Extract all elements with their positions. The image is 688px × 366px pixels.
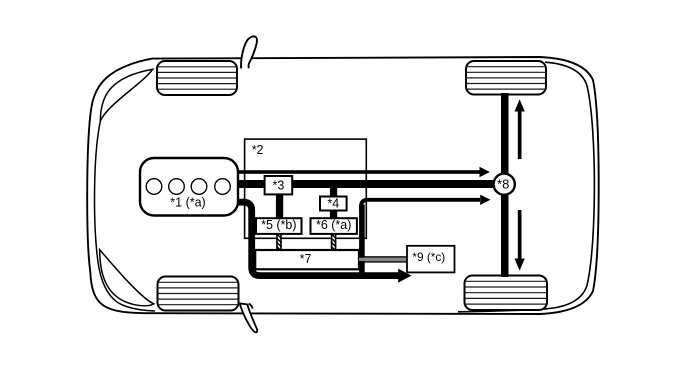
cylinder 2 [169,179,185,195]
wire line #1 engine to *8 (arrow) [237,170,480,174]
box *5 [256,218,302,234]
arrowhead path A [398,269,411,283]
car front lower crescent [100,250,154,306]
wheel front-top [157,61,237,95]
box *4 [320,197,347,211]
svg-text:*1 (*a): *1 (*a) [170,195,205,209]
rear axle [501,93,509,277]
arrowhead branch B [480,195,490,205]
box *7 [255,250,359,269]
engine *1 [140,158,238,216]
svg-text:*9 (*c): *9 (*c) [412,250,445,264]
box *6 [311,218,357,234]
wire line #2 engine to *8 [237,180,495,188]
vertical connector *3 to *5 [276,194,283,220]
car front upper crescent [100,69,153,121]
cylinder 4 [215,179,231,195]
mirror bottom hook [249,304,253,309]
svg-text:*7: *7 [300,252,312,266]
svg-text:*4: *4 [327,197,339,211]
hatched connector below *6 [331,234,337,252]
cylinder 1 [146,179,162,195]
svg-text:*5 (*b): *5 (*b) [261,218,296,232]
svg-text:*2: *2 [252,143,264,157]
gray bus *7 to *9 [359,256,408,262]
svg-text:*6 (*a): *6 (*a) [316,218,351,232]
wheel rear-top [466,61,546,95]
mirror bottom [240,303,258,332]
node *8 circle [494,174,515,195]
wire thick path A: engine down around *7 to arrow [237,202,399,275]
wheel rear-bottom [465,276,548,311]
cylinder 3 [191,179,207,195]
box *9 [407,246,455,273]
wheel front-bottom [158,277,239,311]
svg-text:*8: *8 [497,177,509,192]
box *2 [245,139,367,238]
box *3 [265,176,293,194]
car rear inner line [458,62,594,312]
arrow up (rear axle front) [515,99,525,159]
car body outline [87,57,599,314]
wire branch B: up from bottom line, right to *8 (arrow) [359,205,365,279]
mirror top [241,36,257,68]
svg-text:*3: *3 [272,179,284,193]
hatched connector below *5 [276,234,282,252]
arrow down (rear axle rear) [515,210,525,271]
vertical connector line#2 to *4 and *4 to *6 [330,187,337,219]
car front inner line [95,121,155,312]
arrowhead line #1 [480,167,490,177]
